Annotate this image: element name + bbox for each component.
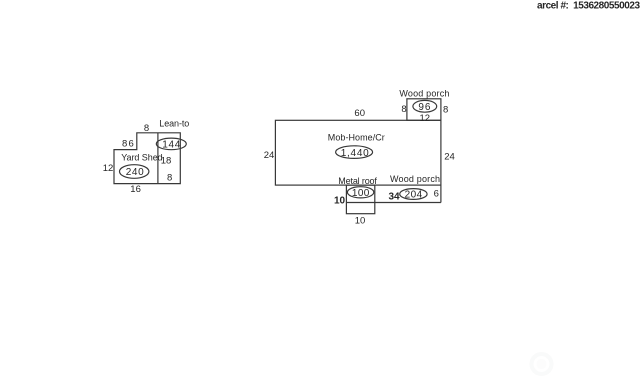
- svg-text:Metal roof: Metal roof: [338, 176, 377, 186]
- svg-text:8: 8: [122, 138, 127, 149]
- svg-text:10: 10: [334, 195, 346, 206]
- svg-text:24: 24: [444, 151, 455, 162]
- yard shed outline: [114, 133, 180, 184]
- svg-text:8: 8: [401, 104, 406, 115]
- svg-text:96: 96: [418, 102, 430, 113]
- lean-to divider wall: [157, 133, 159, 184]
- area ellipse 1,440: [336, 146, 373, 159]
- svg-text:1,440: 1,440: [341, 148, 369, 159]
- svg-text:Yard Shed: Yard Shed: [121, 153, 163, 163]
- wood porch (top) outline: [407, 99, 441, 121]
- svg-text:6: 6: [434, 189, 439, 200]
- svg-text:16: 16: [130, 184, 141, 195]
- svg-text:204: 204: [405, 190, 423, 201]
- svg-text:144: 144: [162, 140, 180, 151]
- svg-text:8: 8: [443, 105, 448, 116]
- area ellipse 240: [120, 165, 149, 179]
- svg-text:10: 10: [355, 216, 366, 227]
- svg-text:Wood porch: Wood porch: [399, 88, 449, 98]
- svg-text:Mob-Home/Cr: Mob-Home/Cr: [328, 132, 385, 142]
- svg-text:24: 24: [264, 150, 275, 161]
- area ellipse 100: [347, 187, 373, 199]
- svg-text:8: 8: [167, 172, 172, 183]
- faint watermark circle: [532, 354, 552, 374]
- wood porch (bottom) outline: [346, 185, 441, 202]
- svg-text:12: 12: [420, 113, 431, 124]
- svg-text:12: 12: [103, 163, 114, 174]
- metal roof outline: [346, 185, 374, 214]
- mobile home outline: [275, 120, 441, 185]
- svg-text:6: 6: [129, 138, 134, 149]
- svg-text:Lean-to: Lean-to: [159, 118, 189, 128]
- area ellipse 144: [156, 138, 186, 151]
- area ellipse 204: [400, 189, 427, 201]
- svg-text:Wood porch: Wood porch: [390, 174, 440, 184]
- svg-text:240: 240: [126, 167, 144, 178]
- svg-text:60: 60: [354, 108, 365, 119]
- svg-text:34: 34: [388, 191, 400, 202]
- svg-text:100: 100: [352, 188, 370, 199]
- parcel number header: [537, 1, 640, 12]
- svg-text:arcel #: 1536280550023: arcel #: 1536280550023: [537, 1, 640, 12]
- area ellipse 96: [413, 100, 437, 113]
- svg-text:8: 8: [144, 123, 149, 134]
